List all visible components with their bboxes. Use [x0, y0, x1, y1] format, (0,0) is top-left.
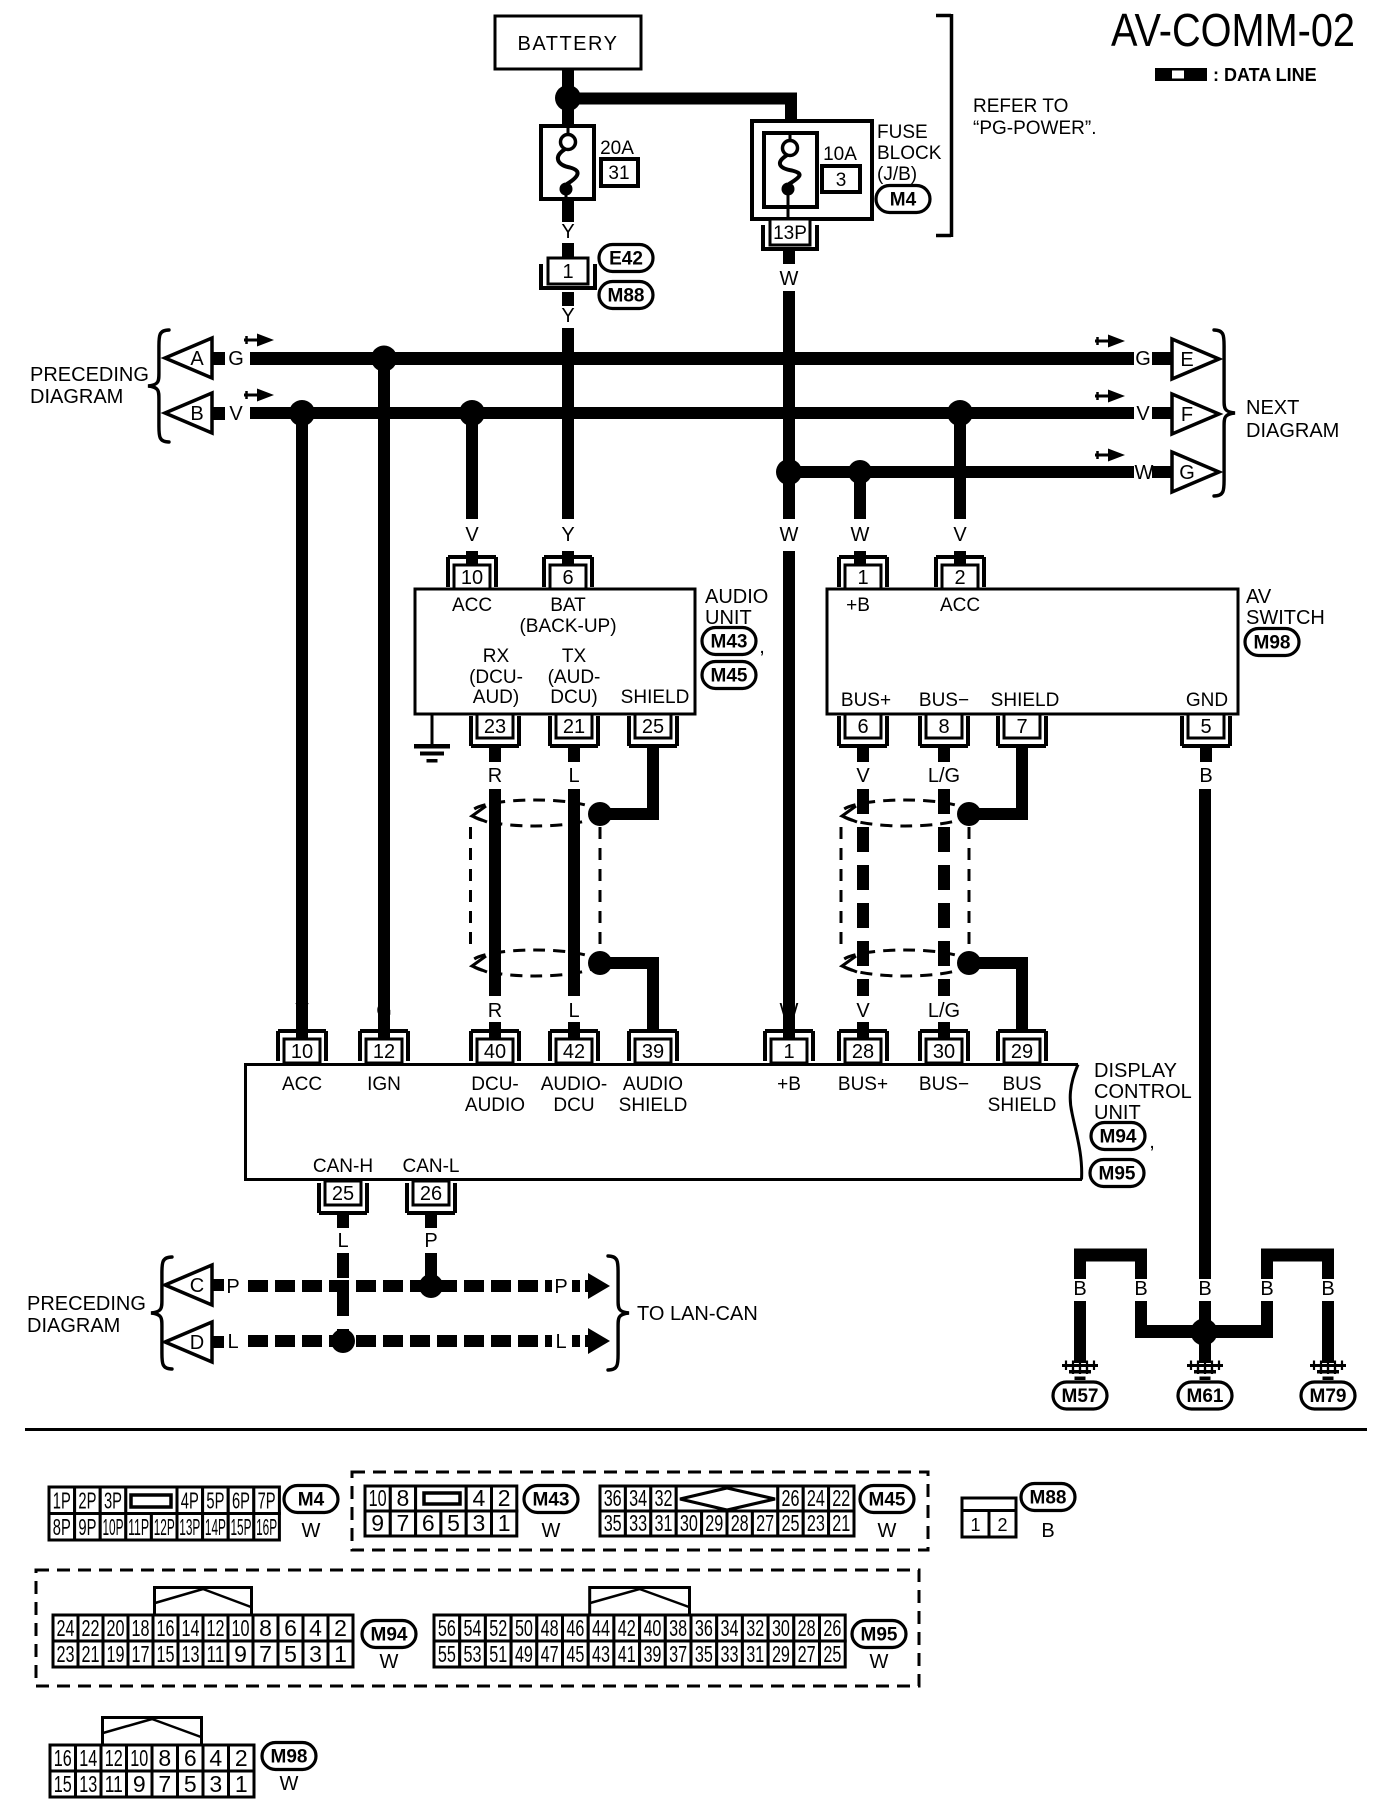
- svg-text:IGN: IGN: [367, 1074, 401, 1095]
- data line legend: [1155, 65, 1317, 85]
- svg-text:25: 25: [642, 716, 664, 738]
- svg-text:12: 12: [373, 1041, 395, 1063]
- svg-text:M45: M45: [711, 666, 748, 687]
- node V junction 2: [459, 400, 485, 426]
- svg-text:18: 18: [132, 1615, 150, 1641]
- svg-text:16: 16: [54, 1745, 72, 1771]
- connector ref M4: [876, 186, 930, 213]
- fuse 20A 31: [541, 126, 638, 200]
- svg-text:35: 35: [604, 1510, 622, 1536]
- svg-text:M43: M43: [533, 1490, 570, 1511]
- wire fuse lead to 13P: [787, 198, 790, 221]
- wire G bus: [250, 352, 1134, 365]
- audio unit pin labels: [452, 595, 689, 708]
- svg-text:B: B: [1260, 1278, 1273, 1300]
- svg-text:8: 8: [259, 1615, 272, 1641]
- svg-text:AUDIO-: AUDIO-: [541, 1074, 608, 1095]
- connector ref M45: [702, 662, 756, 689]
- svg-text:W: W: [280, 1773, 299, 1795]
- connector F to next diagram: [1172, 394, 1219, 434]
- svg-text:+B: +B: [777, 1074, 801, 1095]
- svg-text:2: 2: [498, 1485, 511, 1511]
- ground M61: [1178, 1361, 1232, 1410]
- node audio shield top: [588, 802, 612, 826]
- svg-text:31: 31: [655, 1510, 673, 1536]
- wire labels B: [1073, 1278, 1334, 1300]
- svg-text:52: 52: [489, 1615, 507, 1641]
- wire label L right: [555, 1328, 610, 1354]
- connector C from preceding diagram: [165, 1265, 224, 1305]
- svg-text:M95: M95: [1099, 1164, 1136, 1185]
- svg-text:14: 14: [182, 1615, 200, 1641]
- to lan-can label: [637, 1303, 758, 1325]
- svg-text:SHIELD: SHIELD: [988, 1095, 1057, 1116]
- wire junction to fuse block: [568, 93, 797, 122]
- svg-text:1: 1: [562, 261, 573, 283]
- svg-text:43: 43: [592, 1641, 610, 1667]
- svg-text:M98: M98: [271, 1747, 308, 1768]
- node G junction: [371, 346, 397, 372]
- shield right dashed: [841, 800, 969, 976]
- svg-text:9: 9: [371, 1510, 384, 1536]
- svg-text:28: 28: [798, 1615, 816, 1641]
- wire label G: [228, 348, 244, 370]
- svg-text:BLOCK: BLOCK: [877, 143, 942, 164]
- svg-text:(AUD-: (AUD-: [548, 667, 601, 688]
- svg-text:7: 7: [158, 1771, 171, 1797]
- wire label P right: [554, 1273, 610, 1299]
- svg-text:10: 10: [461, 567, 483, 589]
- svg-text:42: 42: [618, 1615, 636, 1641]
- svg-text:M57: M57: [1062, 1386, 1099, 1407]
- svg-text:(J/B): (J/B): [877, 164, 917, 185]
- svg-text:26: 26: [420, 1183, 442, 1205]
- svg-text:V: V: [856, 1000, 870, 1022]
- svg-text:2: 2: [334, 1615, 347, 1641]
- svg-text:2P: 2P: [78, 1488, 96, 1514]
- svg-text:3: 3: [309, 1641, 322, 1667]
- svg-text:42: 42: [563, 1041, 585, 1063]
- svg-text:W: W: [878, 1520, 897, 1542]
- refer to PG-POWER bracket: [936, 14, 1097, 237]
- separator line: [25, 1428, 1367, 1431]
- svg-text:DIAGRAM: DIAGRAM: [30, 386, 123, 408]
- svg-text:16: 16: [157, 1615, 175, 1641]
- connector ref M94 table: [362, 1621, 416, 1674]
- svg-text:B: B: [1073, 1278, 1086, 1300]
- svg-text:12: 12: [207, 1615, 225, 1641]
- svg-text:7: 7: [1016, 716, 1027, 738]
- AV switch pin 8: [920, 714, 968, 746]
- display unit pin 29: [998, 1031, 1046, 1063]
- svg-text:B: B: [1199, 765, 1212, 787]
- display unit pin 10: [278, 1031, 326, 1063]
- svg-text:B: B: [1134, 1278, 1147, 1300]
- svg-text:33: 33: [629, 1510, 647, 1536]
- svg-text:SHIELD: SHIELD: [991, 690, 1060, 711]
- node W junction on W bus: [776, 459, 802, 485]
- wire B to ground M61: [1199, 1301, 1211, 1363]
- arrow V right: [1095, 390, 1125, 403]
- wire V AV BUS+ data line: [856, 746, 870, 996]
- svg-text:37: 37: [669, 1641, 687, 1667]
- svg-text:21: 21: [832, 1510, 850, 1536]
- AV switch M98: [827, 589, 1238, 714]
- AV switch pin labels: [841, 595, 1228, 711]
- audio unit pin 25: [629, 714, 677, 746]
- wire CAN-L P data line: [424, 1213, 437, 1284]
- svg-text:SHIELD: SHIELD: [621, 687, 690, 708]
- arrow V: [244, 389, 274, 402]
- svg-text:L/G: L/G: [928, 765, 960, 787]
- svg-text:47: 47: [541, 1641, 559, 1667]
- audio unit pin 23: [471, 714, 519, 746]
- node CAN-L to P line: [419, 1274, 443, 1298]
- svg-text:6: 6: [284, 1615, 297, 1641]
- svg-text:W: W: [1135, 462, 1154, 484]
- svg-text:44: 44: [592, 1615, 610, 1641]
- svg-text:PRECEDING: PRECEDING: [30, 364, 149, 386]
- svg-text:TX: TX: [562, 646, 587, 667]
- wire audio shield pin 25: [600, 746, 659, 820]
- wire label Y: [561, 292, 574, 327]
- svg-text:15P: 15P: [231, 1514, 252, 1540]
- svg-text:6: 6: [562, 567, 573, 589]
- svg-text:34: 34: [721, 1615, 739, 1641]
- connector G to next diagram: [1172, 452, 1219, 492]
- svg-text:DIAGRAM: DIAGRAM: [1246, 420, 1339, 442]
- connector ref M43 table: [524, 1486, 578, 1543]
- svg-text:3P: 3P: [104, 1488, 122, 1514]
- svg-text:4: 4: [209, 1745, 222, 1771]
- svg-text:BUS−: BUS−: [919, 1074, 969, 1095]
- svg-text:E42: E42: [609, 249, 643, 270]
- svg-text:53: 53: [464, 1641, 482, 1667]
- wire L CAN data line: [248, 1335, 552, 1347]
- svg-text:R: R: [488, 765, 502, 787]
- svg-text:55: 55: [438, 1641, 456, 1667]
- dashed group M94 M95: [36, 1570, 919, 1686]
- svg-text:45: 45: [566, 1641, 584, 1667]
- svg-text:11: 11: [105, 1771, 123, 1797]
- svg-text:33: 33: [721, 1641, 739, 1667]
- svg-text:19: 19: [107, 1641, 125, 1667]
- svg-text:29: 29: [1011, 1041, 1033, 1063]
- svg-text:20: 20: [107, 1615, 125, 1641]
- connector ref E42: [599, 245, 653, 272]
- audio unit label: [705, 586, 768, 629]
- connector table M45: [600, 1485, 854, 1536]
- node W junction 2: [848, 460, 872, 484]
- wire AV shield pin 7: [969, 746, 1028, 820]
- svg-text:L: L: [568, 1000, 579, 1022]
- node ground junction: [1191, 1319, 1218, 1346]
- wire label W: [780, 251, 799, 290]
- svg-text:M61: M61: [1187, 1386, 1224, 1407]
- svg-text:24: 24: [57, 1615, 75, 1641]
- svg-text:W: W: [851, 524, 870, 546]
- node battery junction: [555, 85, 581, 111]
- svg-text:41: 41: [618, 1641, 636, 1667]
- svg-text:48: 48: [541, 1615, 559, 1641]
- svg-text:W: W: [380, 1651, 399, 1673]
- svg-text:10: 10: [291, 1041, 313, 1063]
- svg-text:16P: 16P: [256, 1514, 277, 1540]
- svg-text:39: 39: [643, 1641, 661, 1667]
- svg-text:M98: M98: [1254, 633, 1291, 654]
- svg-text:13: 13: [182, 1641, 200, 1667]
- shield left dashed: [471, 800, 601, 976]
- connector table M94: [53, 1588, 353, 1668]
- svg-text:P: P: [424, 1230, 437, 1252]
- display unit pin 39: [629, 1031, 677, 1063]
- connector ref M98 table: [262, 1743, 316, 1796]
- svg-text:36: 36: [695, 1615, 713, 1641]
- svg-text:1: 1: [857, 567, 868, 589]
- svg-text:M88: M88: [1030, 1488, 1067, 1509]
- wire B bridge left: [1074, 1249, 1147, 1280]
- display unit pin 26: [407, 1181, 455, 1213]
- svg-text:V: V: [1136, 403, 1150, 425]
- svg-text:23: 23: [807, 1510, 825, 1536]
- wire label Y: [561, 221, 574, 243]
- AV switch pin 2: [936, 557, 984, 589]
- wire fuse to connector E42: [562, 199, 574, 222]
- svg-text:AUDIO: AUDIO: [705, 586, 768, 608]
- wire CAN-H L data line: [337, 1213, 349, 1339]
- svg-text:R: R: [488, 1000, 502, 1022]
- svg-text:F: F: [1181, 404, 1193, 426]
- connector 13P: [763, 219, 817, 251]
- svg-text:DCU-: DCU-: [471, 1074, 519, 1095]
- svg-text:AV: AV: [1246, 586, 1272, 608]
- wire L audio TX: [568, 746, 580, 996]
- svg-text:B: B: [1041, 1520, 1054, 1542]
- svg-text:9: 9: [234, 1641, 247, 1667]
- preceding diagram label bottom: [27, 1293, 146, 1337]
- svg-text:A: A: [190, 348, 204, 370]
- svg-text:PRECEDING: PRECEDING: [27, 1293, 146, 1315]
- svg-text:27: 27: [756, 1510, 774, 1536]
- wire stubs into display connectors: [296, 1022, 950, 1040]
- svg-text:C: C: [190, 1275, 204, 1297]
- svg-text:G: G: [228, 348, 244, 370]
- svg-text:M88: M88: [608, 286, 645, 307]
- svg-text:6: 6: [857, 716, 868, 738]
- svg-text:AUDIO: AUDIO: [465, 1095, 525, 1116]
- svg-text:GND: GND: [1186, 690, 1228, 711]
- svg-text:30: 30: [933, 1041, 955, 1063]
- svg-text:: DATA LINE: : DATA LINE: [1213, 65, 1317, 85]
- svg-text:NEXT: NEXT: [1246, 397, 1299, 419]
- svg-text:RX: RX: [483, 646, 510, 667]
- svg-text:6: 6: [184, 1745, 197, 1771]
- svg-text:P: P: [226, 1276, 239, 1298]
- svg-text:2: 2: [997, 1515, 1007, 1535]
- svg-text:1: 1: [498, 1510, 511, 1536]
- wire W fuse block to display unit: [783, 291, 795, 519]
- wire W to AV switch +B: [851, 478, 870, 566]
- svg-text:14P: 14P: [205, 1514, 226, 1540]
- svg-text:30: 30: [772, 1615, 790, 1641]
- svg-text:L: L: [337, 1230, 348, 1252]
- svg-text:5: 5: [184, 1771, 197, 1797]
- svg-text:FUSE: FUSE: [877, 122, 928, 143]
- svg-text:W: W: [302, 1520, 321, 1542]
- svg-text:V: V: [229, 403, 243, 425]
- connector table M4: [49, 1487, 279, 1540]
- svg-text:V: V: [295, 1000, 309, 1022]
- svg-text:1: 1: [334, 1641, 347, 1667]
- connector ref M88: [599, 282, 653, 309]
- svg-text:M4: M4: [298, 1490, 325, 1511]
- svg-text:10P: 10P: [103, 1514, 124, 1540]
- arrow W right: [1095, 449, 1125, 462]
- svg-text:22: 22: [82, 1615, 100, 1641]
- svg-text:V: V: [856, 765, 870, 787]
- svg-text:32: 32: [746, 1615, 764, 1641]
- battery: [495, 16, 641, 69]
- svg-text:DIAGRAM: DIAGRAM: [27, 1315, 120, 1337]
- svg-text:D: D: [190, 1332, 204, 1354]
- brace preceding top: [148, 330, 169, 442]
- node V junction 1: [289, 400, 315, 426]
- svg-text:L: L: [227, 1331, 238, 1353]
- svg-text:CAN-L: CAN-L: [402, 1156, 459, 1177]
- node V junction 3: [947, 400, 973, 426]
- svg-text:22: 22: [832, 1485, 850, 1511]
- node audio shield bottom: [588, 951, 612, 975]
- svg-text:UNIT: UNIT: [1094, 1102, 1141, 1124]
- svg-text:P: P: [554, 1276, 567, 1298]
- AV switch pin 1: [839, 557, 887, 589]
- svg-text:V: V: [953, 524, 967, 546]
- brace to lan-can: [608, 1256, 629, 1370]
- svg-text:(BACK-UP): (BACK-UP): [519, 616, 616, 637]
- wire W bus: [783, 466, 1134, 478]
- svg-text:50: 50: [515, 1615, 533, 1641]
- wire B to junction right: [1205, 1301, 1273, 1338]
- wire R audio RX: [488, 746, 502, 996]
- display unit pin 1: [765, 1031, 813, 1063]
- ground M57: [1053, 1361, 1107, 1410]
- svg-text:26: 26: [782, 1485, 800, 1511]
- AV switch pin 6: [839, 714, 887, 746]
- svg-text:M95: M95: [861, 1625, 898, 1646]
- AV switch pin 5: [1182, 714, 1230, 746]
- node AV shield top: [957, 802, 981, 826]
- connector table M88: [962, 1498, 1016, 1537]
- svg-text:V: V: [465, 524, 479, 546]
- arrow G: [244, 334, 274, 347]
- connector table M98: [50, 1718, 254, 1798]
- svg-text:5: 5: [284, 1641, 297, 1667]
- connector E to next diagram: [1172, 339, 1219, 379]
- svg-text:G: G: [1135, 348, 1151, 370]
- svg-text:10: 10: [232, 1615, 250, 1641]
- svg-text:49: 49: [515, 1641, 533, 1667]
- svg-text:29: 29: [772, 1641, 790, 1667]
- wire V to audio ACC: [465, 419, 479, 566]
- svg-text:L: L: [555, 1331, 566, 1353]
- node CAN-H to L line: [331, 1329, 355, 1353]
- wire V to display ACC: [296, 419, 308, 1031]
- svg-text:W: W: [780, 1000, 799, 1022]
- svg-text:25: 25: [332, 1183, 354, 1205]
- svg-text:BUS+: BUS+: [838, 1074, 888, 1095]
- wire P CAN data line: [248, 1280, 552, 1292]
- svg-text:4P: 4P: [181, 1488, 199, 1514]
- wire label G right: [1135, 348, 1172, 370]
- svg-text:M45: M45: [869, 1490, 906, 1511]
- svg-text:8: 8: [938, 716, 949, 738]
- display unit pin 30: [920, 1031, 968, 1063]
- svg-text:20A: 20A: [600, 138, 634, 159]
- svg-text:M94: M94: [1100, 1127, 1137, 1148]
- svg-text:35: 35: [695, 1641, 713, 1667]
- svg-text:AV-COMM-02: AV-COMM-02: [1111, 4, 1355, 56]
- svg-text:W: W: [870, 1651, 889, 1673]
- svg-text:Y: Y: [561, 305, 574, 327]
- svg-text:W: W: [542, 1520, 561, 1542]
- svg-text:B: B: [1321, 1278, 1334, 1300]
- svg-text:DISPLAY: DISPLAY: [1094, 1060, 1177, 1082]
- svg-text:5: 5: [447, 1510, 460, 1536]
- arrow G right: [1095, 335, 1125, 348]
- svg-text:23: 23: [57, 1641, 75, 1667]
- node AV shield bottom: [957, 951, 981, 975]
- svg-text:SHIELD: SHIELD: [619, 1095, 688, 1116]
- svg-text:3: 3: [836, 170, 847, 191]
- svg-text:UNIT: UNIT: [705, 607, 752, 629]
- display unit pin labels: [282, 1074, 1056, 1177]
- svg-text:12: 12: [105, 1745, 123, 1771]
- audio unit pin 6: [544, 557, 592, 589]
- svg-text:11P: 11P: [128, 1514, 149, 1540]
- svg-text:23: 23: [484, 716, 506, 738]
- svg-text:15: 15: [54, 1771, 72, 1797]
- svg-text:40: 40: [484, 1041, 506, 1063]
- display unit pin 12: [360, 1031, 408, 1063]
- brace next diagram: [1214, 330, 1235, 496]
- preceding diagram label: [30, 364, 149, 408]
- svg-text:7: 7: [397, 1510, 410, 1536]
- wire B bridge right: [1261, 1249, 1334, 1280]
- svg-text:5P: 5P: [206, 1488, 224, 1514]
- svg-text:24: 24: [807, 1485, 825, 1511]
- svg-text:+B: +B: [846, 595, 870, 616]
- svg-text:25: 25: [823, 1641, 841, 1667]
- svg-text:36: 36: [604, 1485, 622, 1511]
- svg-text:3: 3: [209, 1771, 222, 1797]
- svg-text:ACC: ACC: [452, 595, 492, 616]
- svg-text:AUDIO: AUDIO: [623, 1074, 683, 1095]
- svg-text:REFER TO: REFER TO: [973, 96, 1068, 117]
- audio unit pin 21: [550, 714, 598, 746]
- svg-text:Y: Y: [561, 221, 574, 243]
- ground M79: [1301, 1361, 1355, 1410]
- svg-text:30: 30: [680, 1510, 698, 1536]
- svg-text:G: G: [1179, 462, 1195, 484]
- svg-text:BUS+: BUS+: [841, 690, 891, 711]
- svg-text:56: 56: [438, 1615, 456, 1641]
- AV switch pin 7: [998, 714, 1046, 746]
- svg-text:TO LAN-CAN: TO LAN-CAN: [637, 1303, 758, 1325]
- connector table M95: [434, 1588, 845, 1668]
- connector ref M95 table: [852, 1621, 906, 1674]
- display unit pin 25: [319, 1181, 367, 1213]
- svg-text:M79: M79: [1310, 1386, 1347, 1407]
